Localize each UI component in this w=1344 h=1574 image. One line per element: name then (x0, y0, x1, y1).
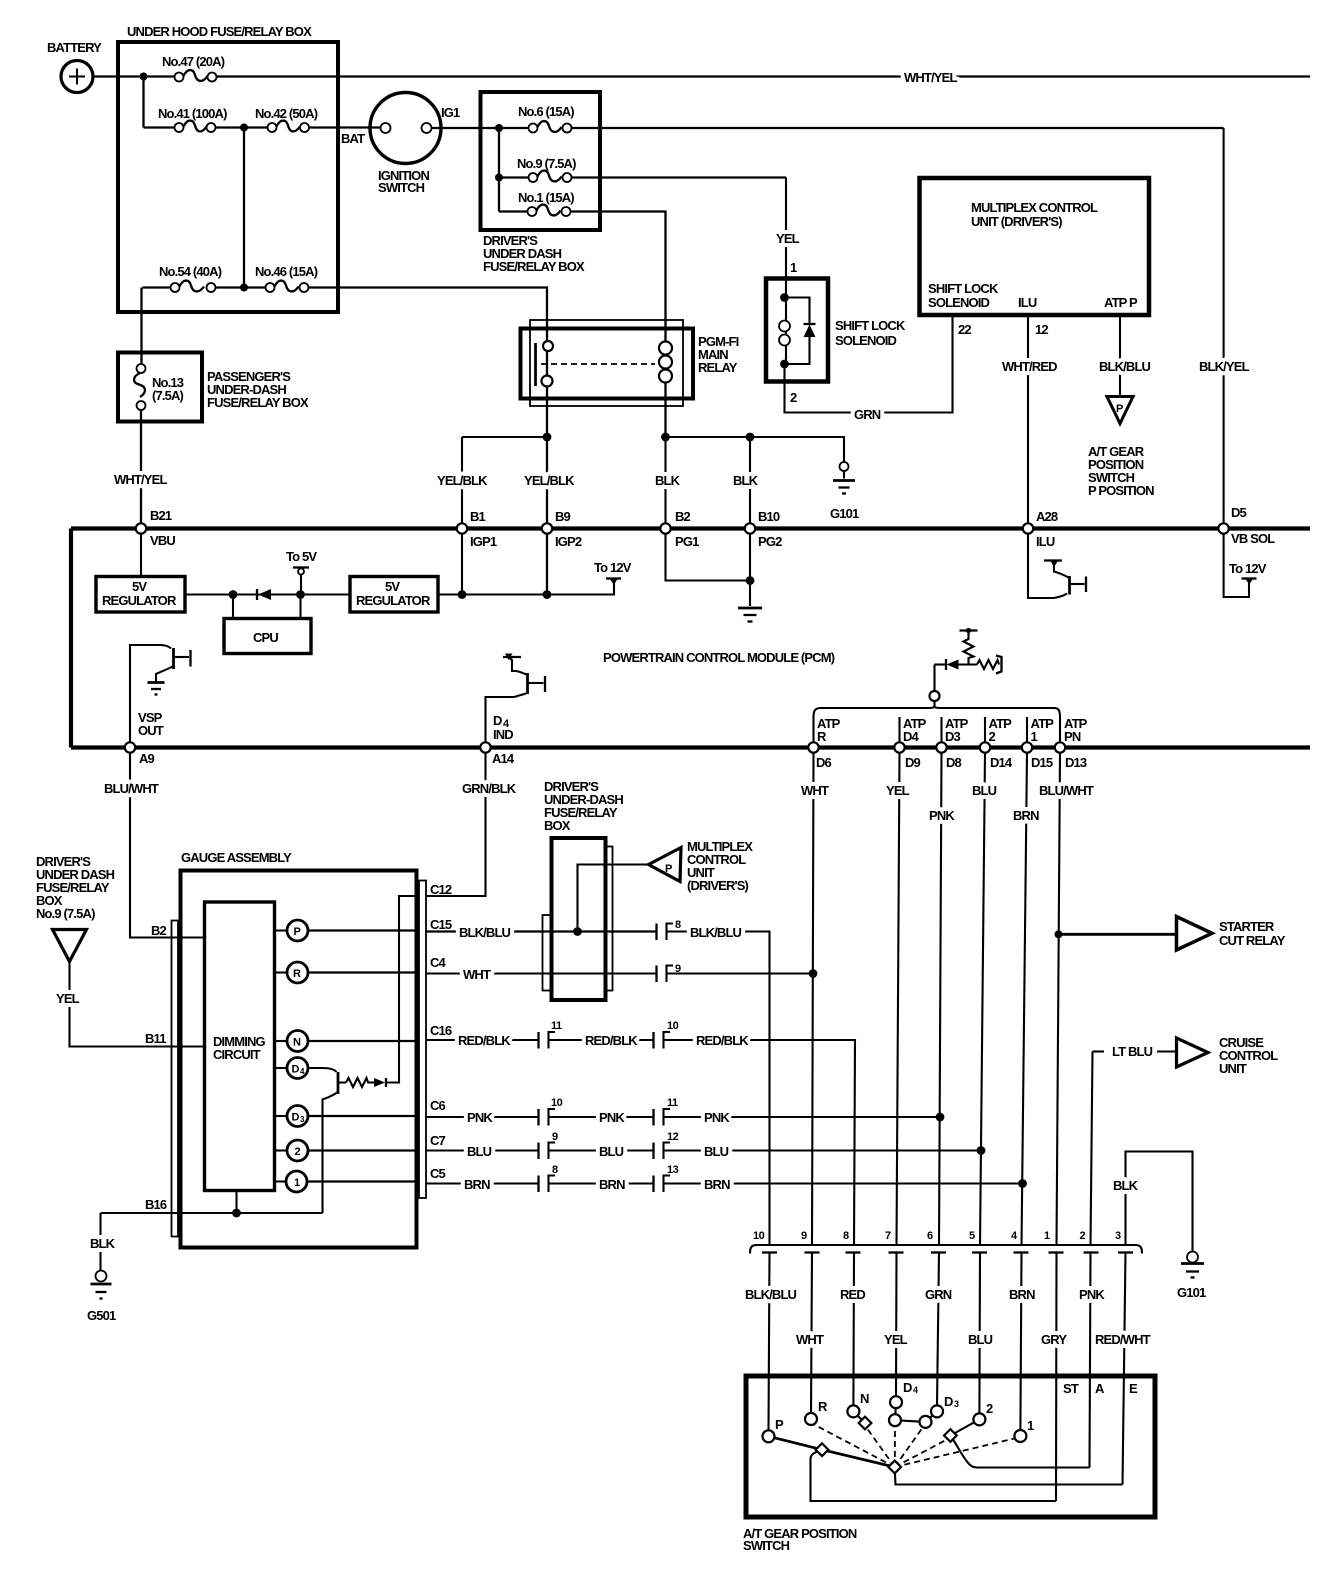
pin B1 IGP1 (457, 509, 497, 549)
A/T gear position switch box (743, 1376, 1155, 1553)
gauge bulb 1 (275, 1171, 420, 1192)
svg-text:RELAY: RELAY (698, 360, 738, 375)
wire RED/BLK middle (549, 1033, 654, 1048)
svg-text:POWERTRAIN CONTROL MODULE (PCM: POWERTRAIN CONTROL MODULE (PCM) (603, 650, 835, 665)
svg-text:A9: A9 (139, 751, 155, 766)
svg-text:G101: G101 (830, 506, 859, 521)
PCM top bus (71, 526, 1310, 530)
junction B10 branch (746, 433, 755, 442)
connector C16 female (549, 1020, 563, 1049)
wire pivot to E column (895, 1467, 1123, 1485)
wire BLK/BLU C15 row (426, 925, 657, 940)
wire fuse9 to solenoid (572, 176, 787, 178)
svg-text:BAT: BAT (341, 131, 365, 146)
wire RED/BLK to switch pin 8 (664, 1033, 856, 1245)
wire LT BLU cruise control (1093, 1044, 1177, 1059)
svg-text:PNK: PNK (704, 1110, 730, 1125)
resistor pullup ATP (960, 628, 978, 665)
dashed ray pivot to D3 contact (895, 1427, 923, 1467)
svg-text:WHT/YEL: WHT/YEL (114, 472, 167, 487)
svg-text:BLU/WHT: BLU/WHT (104, 781, 159, 796)
svg-text:A: A (1095, 1381, 1105, 1396)
svg-text:PNK: PNK (929, 808, 955, 823)
svg-text:2: 2 (1080, 1230, 1086, 1242)
junction fuse9 (495, 174, 503, 182)
ground VSP emitter (148, 683, 165, 695)
gauge bulb 2 (275, 1140, 420, 1161)
driver's under-dash fuse/relay box (481, 92, 601, 274)
svg-text:1: 1 (1027, 1418, 1034, 1433)
wiper arm P solid (769, 1436, 895, 1467)
fuse No.42 (50A) (255, 106, 318, 132)
svg-text:FUSE/RELAY BOX: FUSE/RELAY BOX (483, 259, 585, 274)
connector C5 female 2 (664, 1164, 679, 1192)
svg-text:YEL: YEL (884, 1332, 908, 1347)
svg-text:2: 2 (986, 1401, 993, 1416)
svg-text:BLK/YEL: BLK/YEL (1199, 359, 1250, 374)
wire GRN solenoid pin 2 to multiplex 22 (785, 315, 953, 422)
connector C7 male 2 (652, 1143, 654, 1160)
svg-text:5V: 5V (132, 579, 147, 594)
svg-text:3: 3 (1115, 1230, 1121, 1242)
svg-text:BLK: BLK (733, 473, 759, 488)
wire GRY pin1 to ST (1041, 1253, 1067, 1502)
svg-text:BLK: BLK (90, 1236, 116, 1251)
svg-text:GRN: GRN (854, 407, 881, 422)
svg-text:FUSE/RELAY BOX: FUSE/RELAY BOX (207, 395, 309, 410)
ground G501 (87, 1271, 116, 1324)
gauge bulb N (275, 1031, 420, 1052)
ground G101 upper (830, 462, 859, 521)
svg-text:No.47 (20A): No.47 (20A) (162, 54, 225, 69)
pin 5 (969, 1230, 987, 1253)
wire dimmer to C12 (386, 896, 419, 1083)
svg-text:G501: G501 (87, 1308, 116, 1323)
svg-text:D14: D14 (990, 755, 1013, 770)
wire regulator2 to To 12V (438, 583, 614, 595)
relay coil (659, 340, 672, 437)
diode CPU (257, 589, 271, 600)
junction YEL/BLK (543, 433, 552, 442)
svg-text:YEL: YEL (776, 231, 800, 246)
solenoid coil (779, 279, 790, 365)
contact P (763, 1417, 785, 1442)
relay actuation dashed link (541, 363, 655, 365)
wire WHT/RED multiplex ILU to A28 (1002, 315, 1057, 523)
svg-text:D: D (292, 1112, 300, 1124)
contact D4 lower (889, 1414, 901, 1426)
svg-text:10: 10 (667, 1020, 679, 1032)
svg-text:B11: B11 (145, 1031, 166, 1046)
junction starter cut relay (1055, 930, 1063, 938)
svg-text:PG1: PG1 (675, 534, 699, 549)
fuse No.41 (100A) (144, 106, 228, 132)
svg-text:ATP P: ATP P (1104, 295, 1138, 310)
wire RED/WHT pin3 to E (1095, 1253, 1151, 1485)
wire PNK middle (549, 1110, 654, 1125)
solenoid diode branch (785, 298, 816, 365)
svg-text:4: 4 (913, 1385, 918, 1395)
connector triangle P to gear position switch (1088, 397, 1154, 499)
svg-text:BLU: BLU (704, 1144, 729, 1159)
svg-text:To 12V: To 12V (1229, 561, 1267, 576)
svg-text:BRN: BRN (599, 1177, 625, 1192)
svg-text:C15: C15 (430, 917, 452, 932)
svg-text:D4: D4 (903, 729, 920, 744)
gauge bulb D3 (275, 1106, 420, 1127)
svg-text:No.9 (7.5A): No.9 (7.5A) (36, 906, 95, 921)
pin 9 (801, 1230, 820, 1253)
svg-text:D3: D3 (945, 729, 961, 744)
wire BRN middle (549, 1177, 654, 1192)
svg-text:PN: PN (1064, 729, 1081, 744)
wire PNK pin2 to A (1079, 1253, 1105, 1468)
To 12V symbol right (1229, 561, 1267, 585)
wire BLU C7 row (426, 1144, 539, 1159)
svg-text:D13: D13 (1065, 755, 1087, 770)
transistor ILU (1028, 534, 1086, 599)
gauge pin labels C12-C5 (430, 882, 452, 1181)
svg-text:UNIT: UNIT (1219, 1061, 1247, 1076)
svg-text:SWITCH: SWITCH (378, 180, 425, 195)
svg-text:BLK/BLU: BLK/BLU (459, 925, 511, 940)
connector C5 female (549, 1164, 559, 1192)
svg-text:12: 12 (667, 1131, 679, 1143)
svg-text:D: D (903, 1380, 912, 1395)
gauge assembly box (181, 850, 417, 1248)
svg-text:BLK/BLU: BLK/BLU (1099, 359, 1151, 374)
svg-text:RED: RED (840, 1287, 865, 1302)
wire fuse46 to relay contact (309, 288, 548, 595)
connector C7 female 2 (664, 1131, 679, 1159)
dashed ray pivot to R (814, 1425, 895, 1468)
link N to joint (853, 1411, 865, 1423)
svg-text:SHIFT LOCK: SHIFT LOCK (835, 318, 906, 333)
transistor gauge dimmer (308, 1068, 346, 1213)
svg-text:B9: B9 (555, 509, 571, 524)
wire BLU D14 to pin 5 (972, 753, 997, 1245)
connector triangle from fuse box No.9 (36, 854, 115, 962)
pin D13 ATP PN (1055, 716, 1088, 770)
svg-text:No.41 (100A): No.41 (100A) (158, 106, 227, 121)
junction coil ground branch (661, 433, 670, 442)
svg-text:BATTERY: BATTERY (47, 40, 102, 55)
svg-text:YEL: YEL (56, 991, 80, 1006)
contact joint 2 (944, 1429, 957, 1442)
bottom connector bracket (750, 1245, 1142, 1254)
wire BRN to junction (664, 1177, 1023, 1192)
pin 10 (753, 1230, 777, 1253)
wire BLU/WHT D13 to pin 1 (1039, 753, 1094, 1245)
svg-text:BRN: BRN (704, 1177, 730, 1192)
fuse No.6 (15A) (518, 104, 574, 133)
diode ATP (935, 659, 978, 670)
svg-text:GRY: GRY (1041, 1332, 1067, 1347)
wire row2 to row3 (243, 128, 245, 288)
svg-text:C4: C4 (430, 955, 447, 970)
wire RED pin8 to N (840, 1253, 865, 1406)
wire BLK relay coil to PG1 (655, 437, 681, 529)
svg-text:No.54 (40A): No.54 (40A) (159, 264, 222, 279)
shift lock solenoid box (766, 279, 906, 382)
svg-text:1: 1 (1044, 1230, 1050, 1242)
svg-text:PG2: PG2 (758, 534, 782, 549)
connector C16 male 2 (652, 1032, 654, 1049)
connector C6 female 2 (664, 1097, 679, 1126)
junction BRN (1018, 1179, 1027, 1188)
svg-text:A14: A14 (492, 751, 515, 766)
link D4 to mid contact (895, 1420, 926, 1422)
battery (47, 40, 102, 93)
svg-text:1: 1 (790, 260, 797, 275)
To 12V symbol (594, 560, 632, 585)
svg-text:1: 1 (1031, 729, 1038, 744)
svg-text:D6: D6 (816, 755, 832, 770)
svg-text:RED/BLK: RED/BLK (585, 1033, 638, 1048)
svg-text:BRN: BRN (1009, 1287, 1035, 1302)
dashed ray pivot to 2 joint (895, 1440, 947, 1468)
contact pivot (888, 1461, 901, 1474)
svg-text:OUT: OUT (138, 723, 164, 738)
svg-text:8: 8 (552, 1164, 558, 1176)
svg-text:P: P (775, 1417, 784, 1432)
relay switch contacts (536, 341, 554, 387)
gauge bulb R (275, 962, 420, 983)
junction battery line (140, 73, 148, 81)
wire D5 to To 12V (1224, 534, 1249, 598)
svg-text:10: 10 (753, 1230, 765, 1242)
svg-text:REGULATOR: REGULATOR (356, 593, 431, 608)
svg-text:2: 2 (989, 729, 996, 744)
connector C16 female 2 (664, 1020, 679, 1049)
junction BLU (977, 1146, 986, 1155)
connector C5 male 2 (652, 1176, 654, 1193)
dashed ray pivot to D4 (894, 1425, 896, 1467)
svg-text:UNIT (DRIVER'S): UNIT (DRIVER'S) (971, 214, 1062, 229)
wire BLK/YEL fuse6 rail to D5 (1199, 128, 1250, 523)
wire WHT/YEL top rail (217, 70, 1311, 85)
svg-text:PNK: PNK (1079, 1287, 1105, 1302)
svg-text:BLU: BLU (599, 1144, 624, 1159)
wire YEL/BLK B1 branch (437, 437, 547, 595)
svg-text:B2: B2 (151, 923, 167, 938)
svg-text:B2: B2 (675, 509, 691, 524)
wire B16 ground row (101, 1212, 323, 1214)
contact 1 (1014, 1418, 1034, 1442)
svg-text:IND: IND (493, 727, 513, 742)
svg-text:SOLENOID: SOLENOID (835, 333, 897, 348)
pin D14 ATP 2 (980, 716, 1013, 770)
svg-text:13: 13 (667, 1164, 679, 1176)
junction B9 regulator (543, 590, 552, 599)
svg-text:ILU: ILU (1036, 534, 1055, 549)
pin 7 (885, 1230, 904, 1253)
svg-text:(DRIVER'S): (DRIVER'S) (687, 878, 749, 893)
ignition switch (370, 93, 460, 196)
svg-text:BLU: BLU (467, 1144, 492, 1159)
wire GRN pin6 to D3 (925, 1253, 952, 1406)
svg-text:6: 6 (927, 1230, 933, 1242)
wire joint to A column (950, 1436, 1089, 1468)
svg-text:BRN: BRN (464, 1177, 490, 1192)
svg-text:CPU: CPU (253, 630, 278, 645)
svg-text:REGULATOR: REGULATOR (102, 593, 177, 608)
wire battery to fuse No.47 (93, 75, 175, 77)
wire junction to fuse9 (498, 128, 500, 212)
wire WHT D6 to pin 9 (801, 753, 829, 1245)
PGM-FI main relay box (521, 329, 739, 399)
resistor gauge dimmer (346, 1078, 374, 1087)
svg-text:R: R (293, 968, 301, 980)
svg-text:WHT: WHT (463, 967, 491, 982)
svg-text:C7: C7 (430, 1133, 446, 1148)
connector triangle starter cut relay (1177, 917, 1286, 951)
svg-text:4: 4 (1011, 1230, 1018, 1242)
svg-text:YEL: YEL (886, 783, 910, 798)
pin 3 (1115, 1230, 1133, 1253)
wire YEL fuse9 down to solenoid (776, 178, 800, 279)
passenger's under-dash fuse/relay box (118, 353, 309, 422)
svg-text:RED/WHT: RED/WHT (1095, 1332, 1151, 1347)
svg-text:10: 10 (551, 1097, 563, 1109)
junction WHT (809, 969, 818, 978)
svg-text:PNK: PNK (467, 1110, 493, 1125)
svg-text:G101: G101 (1177, 1285, 1206, 1300)
svg-text:5V: 5V (385, 579, 400, 594)
svg-text:GAUGE ASSEMBLY: GAUGE ASSEMBLY (181, 850, 292, 865)
wire BLK B10 (733, 437, 759, 529)
svg-text:YEL/BLK: YEL/BLK (524, 473, 575, 488)
contact joint N (859, 1417, 872, 1430)
wire WHT pin9 to R (796, 1253, 824, 1414)
svg-text:RED/BLK: RED/BLK (458, 1033, 511, 1048)
connector C7 male (537, 1143, 539, 1160)
svg-text:SHIFT LOCK: SHIFT LOCK (928, 281, 999, 296)
svg-text:PNK: PNK (599, 1110, 625, 1125)
svg-text:CIRCUIT: CIRCUIT (213, 1047, 261, 1062)
wire to multiplex triangle (578, 865, 649, 932)
junction solenoid top (780, 293, 789, 302)
wire WHT/YEL passenger to B21 (114, 410, 167, 523)
pin 2 (1080, 1230, 1099, 1253)
link 2 to joint (950, 1419, 979, 1435)
svg-text:BLU/WHT: BLU/WHT (1039, 783, 1094, 798)
pin B10 PG2 (745, 509, 782, 549)
dashed ray pivot to 1 (895, 1439, 1015, 1468)
svg-text:B10: B10 (758, 509, 780, 524)
wire dimming circuit to B16 (235, 1191, 237, 1214)
wire IG1 to driver's box (432, 127, 529, 129)
svg-text:SOLENOID: SOLENOID (928, 295, 990, 310)
svg-text:BLK/BLU: BLK/BLU (745, 1287, 797, 1302)
junction PNK (936, 1113, 945, 1122)
PCM left edge (69, 529, 73, 748)
wire junction down to row 2 (142, 77, 144, 128)
wire YEL pin7 to D4 (884, 1253, 908, 1397)
junction in driver's box (573, 927, 582, 936)
svg-text:To 5V: To 5V (286, 549, 317, 564)
gauge right connector strip (419, 881, 426, 1199)
svg-text:GRN: GRN (925, 1287, 952, 1302)
fuse No.9 (7.5A) (499, 156, 576, 182)
diode gauge dimmer (374, 1078, 386, 1087)
multiplex control unit box (920, 178, 1150, 337)
pin 4 (1011, 1230, 1029, 1253)
link D4 contacts (895, 1402, 896, 1420)
svg-text:STARTER: STARTER (1219, 919, 1275, 934)
contact mid D3 (920, 1416, 932, 1428)
wire RED/BLK C16 row (426, 1033, 539, 1048)
svg-text:VB SOL: VB SOL (1231, 531, 1275, 546)
junction row2 (240, 124, 248, 132)
svg-text:BLK/BLU: BLK/BLU (690, 925, 742, 940)
5V regulator 2 (350, 577, 438, 613)
svg-text:ST: ST (1063, 1381, 1079, 1396)
connector C4 female (667, 963, 682, 982)
PGM-FI main relay shadow box (530, 320, 683, 406)
svg-text:WHT/YEL: WHT/YEL (904, 70, 957, 85)
svg-text:R: R (817, 729, 827, 744)
wire PNK cruise to switch pin 2 (1091, 1052, 1093, 1246)
pin D15 ATP 1 (1022, 716, 1054, 770)
transistor D4 IND (486, 654, 546, 748)
connector C6 female (549, 1097, 563, 1126)
wire fuse6 to right rail (572, 127, 1224, 129)
contact joint P (816, 1443, 829, 1456)
svg-text:11: 11 (551, 1020, 562, 1032)
svg-text:12: 12 (1035, 322, 1048, 337)
svg-text:BLK: BLK (655, 473, 681, 488)
pin B9 IGP2 (542, 509, 582, 549)
svg-text:D5: D5 (1231, 505, 1247, 520)
svg-text:P: P (665, 863, 672, 875)
svg-text:BLU: BLU (968, 1332, 993, 1347)
svg-text:7: 7 (885, 1230, 891, 1242)
svg-text:To 12V: To 12V (594, 560, 632, 575)
connector C15 female (667, 919, 682, 940)
dimming circuit (205, 902, 275, 1191)
svg-text:9: 9 (801, 1230, 807, 1242)
wire BLU middle (549, 1144, 654, 1159)
pin D9 ATP D4 (894, 716, 926, 770)
svg-text:RED/BLK: RED/BLK (696, 1033, 749, 1048)
wire BLU/WHT A9 to gauge B2 (104, 753, 205, 938)
svg-text:2: 2 (295, 1146, 301, 1158)
svg-text:8: 8 (843, 1230, 849, 1242)
gauge left connector strip (145, 921, 178, 1237)
svg-text:BLU: BLU (972, 783, 997, 798)
svg-text:LT BLU: LT BLU (1112, 1044, 1153, 1059)
node ATP common (930, 665, 940, 707)
svg-text:N: N (293, 1037, 301, 1049)
junction row3 (240, 284, 248, 292)
svg-text:No.1 (15A): No.1 (15A) (518, 190, 574, 205)
svg-text:No.42 (50A): No.42 (50A) (255, 106, 318, 121)
svg-text:SWITCH: SWITCH (743, 1538, 790, 1553)
svg-text:ILU: ILU (1018, 295, 1037, 310)
wire BLU to junction (664, 1144, 982, 1159)
under-hood fuse/relay box (118, 24, 338, 312)
wire WHT C4 row (426, 967, 657, 982)
fuse No.46 (15A) (255, 264, 318, 292)
fuse No.54 (40A) (143, 264, 222, 292)
svg-text:N: N (860, 1391, 869, 1406)
junction PG ground (746, 576, 755, 585)
wire regulator1 to regulator2 (185, 593, 350, 595)
svg-text:P: P (1116, 403, 1123, 415)
svg-text:C16: C16 (430, 1023, 452, 1038)
pin 1 (1044, 1230, 1064, 1253)
